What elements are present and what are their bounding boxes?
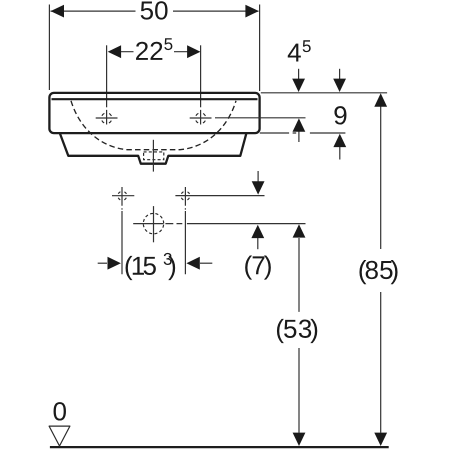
dim 53 vertical line [298, 238, 300, 433]
floor datum triangle [49, 426, 70, 446]
dim 4.5 upper arrow [298, 69, 300, 79]
right tap hole dashed circle [195, 113, 206, 124]
reference line tap hole axis extended right [215, 117, 306, 119]
floor line [50, 446, 389, 448]
extension line right of 22.5 dim [200, 45, 202, 107]
dim 9 lower arrow [339, 147, 341, 160]
label (7) [245, 255, 271, 279]
dim 7 lower arrow [257, 238, 259, 250]
dim 53 lower arrow [293, 433, 306, 446]
label (53) [277, 319, 317, 343]
reference line top rim extended right [261, 92, 387, 94]
left tap hole dashed circle [101, 113, 112, 124]
dim 4.5 lower arrow [298, 131, 300, 142]
right fixing hole cross arm and reference line right [175, 195, 264, 197]
drain hidden dashed rect [144, 152, 164, 160]
label 50 [141, 1, 168, 19]
bowl hidden outline dashed [71, 101, 236, 150]
rim inner front edge line [52, 98, 258, 100]
drain centerline front view [152, 140, 154, 172]
extension line left of 50 dim [48, 5, 50, 91]
left fixing hole dashed circle [118, 191, 127, 200]
left fixing hole centerline vertical [121, 187, 123, 274]
right fixing hole dashed circle [181, 191, 190, 200]
extension line right of 50 dim [259, 5, 261, 92]
right fixing hole centerline vertical [184, 187, 186, 274]
dim 15.3 left arrow [98, 262, 107, 264]
arrowhead right of 50 [245, 5, 258, 18]
left fixing hole cross arm [112, 195, 134, 197]
label 22 superscript 5 [136, 38, 172, 60]
dim 7 upper arrow [257, 171, 259, 183]
drain dashed circle plan [143, 213, 163, 233]
arrowhead right of 22.5 [187, 45, 200, 58]
arrowhead left of 50 [51, 5, 64, 18]
label 4 superscript 5 [288, 40, 311, 61]
dim 15.3 right arrow [200, 262, 212, 264]
dim 85 lower arrow [374, 433, 387, 446]
label 9 [334, 106, 346, 124]
dim 9 upper arrow [339, 69, 341, 79]
arrowhead left of 22.5 [108, 45, 121, 58]
dimension line 50 [51, 10, 259, 12]
right tap hole cross [190, 110, 212, 125]
label (85) [359, 260, 397, 284]
extension line left of 22.5 dim [106, 45, 108, 107]
dimension line 22.5 [121, 51, 188, 53]
dim 53 upper arrow [293, 224, 306, 237]
left tap hole cross [96, 110, 118, 125]
washbasin rim outline [49, 93, 259, 133]
label (15 superscript 3) [126, 253, 176, 280]
drain cross plan and centerline extended right [133, 223, 305, 225]
dashed reference line rim bottom extended right [260, 132, 346, 134]
label 0 [54, 402, 66, 420]
dim 85 upper arrow [374, 93, 387, 106]
basin body with drain boss [60, 134, 246, 164]
dim 85 vertical line [380, 107, 382, 433]
